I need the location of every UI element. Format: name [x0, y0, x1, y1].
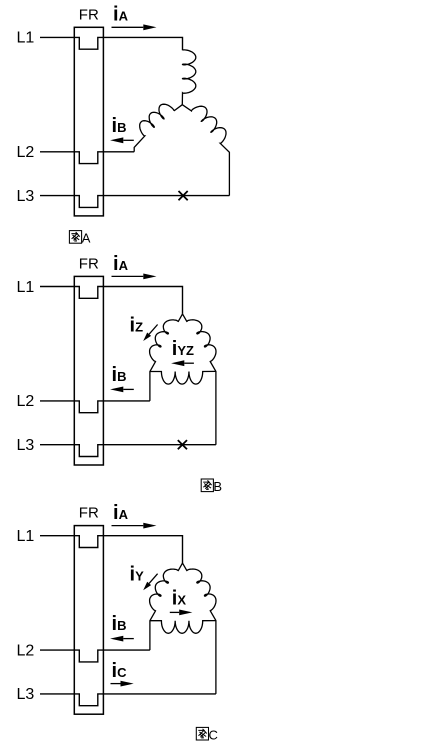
current arrow iB — [123, 139, 134, 141]
current arrow iA — [112, 525, 144, 527]
current arrow iB — [123, 638, 134, 640]
current arrow iX — [170, 611, 179, 613]
svg-text:L2: L2 — [17, 642, 35, 659]
svg-text:L3: L3 — [17, 437, 35, 454]
winding bottom coil (delta) — [150, 621, 216, 634]
wire L2 with FR heater element — [40, 650, 150, 662]
winding left arm (delta) — [150, 563, 183, 650]
svg-text:A: A — [82, 231, 91, 246]
winding right arm (delta) — [183, 314, 217, 445]
wire L2 with FR heater element — [40, 152, 134, 164]
current arrow iY — [149, 574, 158, 584]
wire L1 with FR heater element — [40, 37, 183, 50]
current arrow iYZ — [184, 362, 194, 364]
svg-text:FR: FR — [79, 505, 99, 522]
winding phase W (right arm) — [182, 105, 229, 196]
svg-text:B: B — [213, 479, 222, 494]
current arrow iA — [112, 26, 144, 28]
winding left arm (delta) — [150, 314, 183, 401]
wire L1 with FR heater element — [40, 536, 183, 563]
wire L2 with FR heater element — [40, 401, 150, 413]
winding right arm (delta) — [183, 563, 217, 694]
svg-text:L1: L1 — [17, 30, 35, 47]
current arrow iC — [111, 683, 121, 685]
caption 图A — [69, 231, 81, 244]
wire L1 with FR heater element — [40, 287, 183, 314]
svg-text:L1: L1 — [17, 528, 35, 545]
current arrow iZ — [149, 325, 158, 335]
winding bottom coil (delta) — [150, 371, 216, 384]
svg-text:L3: L3 — [17, 188, 35, 205]
thermal relay FR box — [74, 276, 103, 465]
winding phase V (left arm) — [134, 104, 182, 152]
svg-text:L3: L3 — [17, 686, 35, 703]
svg-text:L2: L2 — [17, 144, 35, 161]
winding phase U (top coil) — [182, 50, 196, 105]
svg-text:L2: L2 — [17, 393, 35, 410]
current arrow iB — [123, 388, 134, 390]
wire L3 with FR heater element — [40, 445, 216, 457]
svg-text:FR: FR — [79, 256, 99, 273]
thermal relay FR box — [74, 526, 103, 715]
wire L3 with FR heater element — [40, 196, 229, 208]
break mark x on L3 — [179, 191, 188, 200]
wire L3 with FR heater element — [40, 694, 216, 706]
current arrow iA — [112, 275, 144, 277]
svg-text:L1: L1 — [17, 279, 35, 296]
svg-text:C: C — [209, 727, 218, 742]
svg-text:FR: FR — [79, 6, 99, 23]
caption 图C — [196, 727, 208, 740]
thermal relay FR box — [74, 27, 103, 216]
break mark x on L3 — [178, 440, 187, 449]
caption 图B — [201, 479, 213, 492]
